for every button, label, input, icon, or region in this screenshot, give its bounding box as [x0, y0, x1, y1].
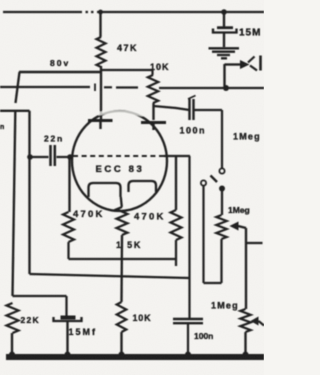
switch blade	[211, 176, 218, 183]
potentiometer 1Meg lower	[240, 309, 250, 332]
ground rail	[6, 354, 264, 360]
wire corner below ground to bus	[223, 64, 225, 88]
wire right 470K bottom lead	[175, 240, 177, 266]
node junction top rail at 47K	[98, 10, 103, 15]
wire tee to 15Mf	[13, 296, 67, 316]
node junction ground 4	[185, 352, 191, 358]
valve grid dashed line	[73, 155, 164, 157]
valve anode left plate	[88, 119, 113, 122]
wire 15Mf bottom lead	[66, 321, 68, 354]
wire grid line right extension	[164, 155, 190, 157]
wiper arrow pot upper	[230, 222, 239, 231]
wire 22n to grid node	[57, 156, 68, 158]
potentiometer 1Meg upper	[216, 215, 226, 239]
switch contact B	[201, 180, 206, 185]
wire lower pot to ground	[244, 332, 246, 354]
capacitor 100n coupling plates	[190, 99, 194, 120]
resistor 10K upper	[148, 75, 158, 103]
node junction input to 22n	[27, 154, 33, 160]
wire right 470K top lead	[175, 157, 177, 210]
valve ECC83 envelope	[72, 111, 167, 211]
wire 15M cap to ground	[223, 33, 225, 47]
wire grid right vertical long	[188, 156, 190, 319]
capacitor 15Mf electrolytic	[61, 316, 76, 320]
node junction grid left	[67, 154, 73, 160]
node junction ground 2	[65, 352, 71, 358]
resistor 1.5K	[117, 207, 128, 235]
wire switch B lead down	[202, 186, 204, 283]
wire 100n to switch	[194, 110, 223, 168]
wire wiper vertical	[245, 228, 247, 309]
wire input vertical	[28, 111, 30, 274]
switch pole dot	[219, 186, 225, 192]
valve cathode right	[129, 181, 157, 192]
wire arrow stem	[225, 63, 241, 65]
wire left 470K bottom corner	[69, 242, 176, 259]
switch contact A	[219, 168, 224, 173]
node junction ground 3	[119, 352, 125, 358]
wire right anode to 100n stub	[154, 106, 190, 110]
ground symbol top right	[209, 48, 240, 58]
wire 100n lower to ground	[187, 323, 189, 354]
node junction ground 5	[243, 352, 249, 358]
wire input line	[0, 110, 30, 112]
wire node 47K to 10K top	[101, 69, 153, 71]
wiper arrow HT feed	[240, 60, 250, 69]
wire switch pole to pot	[221, 191, 223, 215]
node junction bus right	[223, 85, 229, 91]
wire left 470K top lead	[68, 159, 70, 212]
resistor 470K right	[171, 210, 182, 240]
valve anode right plate	[141, 121, 166, 124]
capacitor 100n lower plates	[173, 319, 203, 323]
wire 22K bottom lead	[11, 333, 13, 354]
capacitor 22n plates	[51, 145, 55, 166]
wire screen bus line	[0, 87, 264, 88]
wire cathode common lead	[121, 197, 122, 207]
wire 80v line	[19, 71, 101, 73]
wire 47K top lead	[99, 12, 101, 37]
wire 15M cap top lead	[223, 12, 225, 27]
valve cathode left	[89, 183, 121, 197]
capacitor 15M plates	[217, 26, 233, 29]
wire bus tick	[94, 84, 96, 92]
node junction top rail at 15M cap	[221, 9, 227, 15]
node junction ground 1	[9, 352, 15, 358]
wire 10K top lead	[151, 70, 153, 75]
resistor 470K left	[63, 212, 74, 242]
capacitor 100n tick	[188, 96, 196, 100]
resistor 22K	[7, 303, 19, 333]
wire top supply rail	[3, 11, 264, 13]
wiper arrow pot lower	[251, 317, 259, 326]
wire output stub	[246, 242, 263, 244]
resistor 47K	[97, 37, 106, 67]
wire to 22n cap	[32, 156, 49, 158]
wire 47K bottom to left anode	[100, 66, 102, 119]
wire 10K lower bottom lead	[120, 332, 122, 354]
wire switch-pot bottom join	[204, 282, 222, 284]
wire input corner to 100n line	[30, 274, 190, 278]
wire left vertical from bus	[13, 112, 16, 296]
wire 10K bottom to right anode	[152, 103, 154, 120]
wire 80v corner down to bus	[16, 72, 20, 103]
wire pot bottom lead	[220, 239, 222, 283]
wire 1.5K bottom lead	[120, 235, 123, 302]
resistor 10K lower	[117, 302, 127, 332]
